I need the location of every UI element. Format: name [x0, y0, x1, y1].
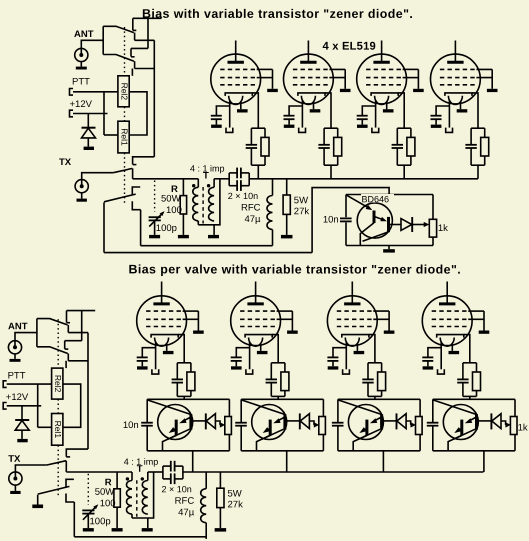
wire cap branch lower of RC1 [250, 148, 252, 165]
wire 5W 27k to ground [219, 508, 221, 528]
tube V3 grid g3 [366, 84, 403, 86]
wire darlington box ground stub [388, 246, 390, 250]
capacitor of RC6 [266, 378, 277, 380]
TX switch contact upper tick [133, 164, 137, 166]
wire RC3 output [403, 165, 405, 179]
tube V4 cathode [445, 93, 472, 96]
ground of V1 heater [237, 109, 248, 112]
zener box 4 box left edge with cap gap [432, 399, 434, 422]
tube V8 heater [440, 338, 454, 347]
transformer T secondary winding [147, 472, 149, 481]
svg-text:T: T [137, 464, 143, 475]
wire grid g1 to ground rail of V6 [277, 310, 293, 312]
diode protection [82, 127, 96, 129]
relay contact 2 tick [131, 56, 135, 58]
wire cathode of V8 to bias network [464, 335, 470, 363]
svg-text:RFC: RFC [175, 496, 195, 507]
wire contact 2 feed horizontal [65, 340, 82, 342]
wire cathode bypass of V3 [362, 106, 375, 116]
svg-text:1k: 1k [518, 423, 528, 434]
resistor of RC5 [187, 372, 195, 391]
tube V6 envelope [231, 296, 281, 346]
diode D1 [401, 219, 412, 231]
svg-text:T: T [203, 171, 209, 182]
zener box 3 box right edge with pot gap [419, 399, 421, 416]
transistor envelope of zener box 1 [158, 405, 193, 440]
wire PTT branch down [103, 92, 105, 135]
ground of 5W 27k [281, 235, 293, 239]
relay contact 1 upper terminal [132, 18, 134, 30]
transistor collector lead of zener box 2 [257, 429, 284, 451]
wire grid ground drop of V2 [344, 69, 346, 88]
wire zener box 2 to bus stub [286, 451, 288, 472]
ground of V2 bypass [284, 125, 295, 128]
ground of V5 grids [193, 331, 204, 334]
svg-text:10n: 10n [123, 420, 139, 431]
heater supply terminal of V3 [372, 128, 379, 133]
capacitor 10n in left edge [340, 217, 352, 219]
wire transformer ground stub [147, 518, 149, 528]
terminal +12V [70, 110, 74, 117]
svg-text:PTT: PTT [72, 77, 90, 88]
capacitor 100p variable link dotted [154, 181, 156, 212]
wire grid g2 to ground rail of V7 [373, 318, 389, 320]
transistor envelope of zener box 3 [348, 405, 383, 440]
tube V2 envelope [284, 54, 334, 104]
capacitor cathode bypass of V6 [231, 356, 242, 358]
potentiometer 1k of zener box 3 [416, 417, 423, 435]
heater supply terminal of V4 [446, 128, 453, 133]
tube V3 grid g1 [366, 68, 403, 70]
wire TX connector ground lead [14, 485, 16, 491]
wire cap branch of RC6 [270, 363, 272, 380]
transistor collector lead of zener box 1 [163, 429, 190, 451]
ground of V8 grids [479, 331, 490, 334]
transistor collector lead of zener box 4 [448, 429, 475, 451]
tube V7 grid g2 [337, 318, 374, 320]
svg-text:4 x EL519: 4 x EL519 [322, 41, 375, 53]
wire heater pin 2 of V3 [386, 102, 388, 110]
wire grid g2 to ground rail of V3 [403, 77, 419, 79]
ground of V4 heater [457, 109, 468, 112]
wire PTT to Rel2 [7, 383, 52, 385]
diode of zener box 1 [205, 413, 207, 429]
ground of V4 bypass [431, 125, 442, 128]
wire grid ground drop of V8 [483, 311, 485, 330]
wire RC4 output [477, 165, 479, 179]
transistor feed lead of zener box 4 [434, 400, 477, 414]
capacitor 2x10n branch rails [228, 173, 230, 186]
wire relay link to coil [65, 361, 67, 368]
relay coil Rel2 [118, 76, 129, 107]
relay contact 1 upper terminal [66, 311, 68, 323]
tube V5 plate lead wire [161, 282, 163, 304]
wire branch to Rel1 [104, 134, 118, 136]
tube V5 cathode [151, 335, 178, 338]
wire resistor branch of RC7 [381, 363, 383, 372]
zener box 1 box left edge with cap gap [146, 399, 148, 422]
ground of V8 bypass [423, 366, 434, 369]
relay contact arm 1 [37, 319, 68, 325]
svg-text:5W: 5W [227, 489, 241, 500]
diode of zener box 2 [299, 413, 301, 429]
wire output of zener box 1 [192, 420, 206, 422]
tube V7 grid g3 [337, 326, 374, 328]
wire TX arm to ground bottom [37, 495, 39, 505]
transformer T secondary phase dot [141, 477, 144, 480]
tube V4 grid g2 [440, 77, 477, 79]
wire resistor branch lower of RC1 [264, 156, 266, 165]
wire bus to 5W resistor [219, 472, 221, 488]
transistor bar B of zener box 2 [283, 414, 286, 429]
wire RFC down [205, 523, 207, 539]
ground of V2 grids [340, 89, 351, 92]
capacitor of RC3 [392, 144, 403, 146]
wire output of zener box 3 [382, 420, 396, 422]
TX switch middle contact [66, 479, 74, 487]
heater supply terminal of V8 [438, 369, 445, 374]
wire RC5 output [183, 396, 185, 399]
wire diode to pot of zener box 1 [215, 421, 220, 425]
resistor 5W 27k [283, 195, 290, 214]
wire bypass cap to ground of V5 [141, 361, 143, 366]
wire ANT connector ground lead [80, 62, 82, 67]
bias network RC6 bottom rail [271, 395, 285, 397]
capacitor 2x10n branch rails [162, 466, 164, 479]
ground of 100p [149, 235, 160, 238]
tube V3 plate lead wire [381, 41, 383, 63]
transformer T secondary winding [213, 179, 215, 188]
relay contact 2 tick [65, 348, 69, 350]
wire TX NO contact to bias rail A [140, 210, 142, 246]
wire heater pin 2 of V5 [166, 343, 168, 351]
wire TX feed vertical [87, 333, 89, 450]
wire contact feed horizontal [68, 332, 88, 334]
wire 100p to ground [87, 514, 89, 529]
tube V3 envelope [357, 54, 407, 104]
zener box 1 box right edge with pot gap [228, 399, 230, 416]
tube V8 plate lead wire [446, 282, 448, 304]
wire cap branch of RC2 [323, 128, 325, 145]
wire bypass cap to ground of V7 [332, 361, 334, 366]
wire grid g1 to ground rail of V7 [373, 310, 389, 312]
wire contact 2 to TX feed [135, 68, 155, 70]
wire cathode of V2 to bias network [325, 93, 331, 128]
tube V4 grid g3 [440, 84, 477, 86]
wire RF bus middle segment [214, 178, 229, 180]
darlington box left edge with cap gap [345, 195, 347, 218]
tube V1 envelope [211, 54, 261, 104]
wire resistor branch of RC6 [284, 363, 286, 372]
ground of V4 grids [487, 89, 498, 92]
wire cross link vertical [81, 311, 83, 341]
wire cathode of V4 to bias network [472, 93, 478, 128]
wire grid g1 to ground rail of V4 [476, 68, 492, 70]
transistor Q1 to Q2 link [375, 217, 384, 220]
wire +12V [7, 405, 42, 407]
wire RF bus bottom left segment [66, 471, 132, 473]
heater supply terminal of V5 [152, 369, 159, 374]
wire bypass cap to ground of V6 [235, 361, 237, 366]
wire cathode of V5 to bias network [178, 335, 184, 363]
tube V2 grid g2 [293, 77, 330, 79]
capacitor 10n of zener box 4 [427, 422, 439, 424]
wire resistor branch of RC3 [410, 128, 412, 137]
wire cathode of V3 to bias network [398, 93, 404, 128]
wire +12V to diode [21, 406, 23, 420]
bias network RC1 top rail [251, 127, 265, 129]
wire cathode bypass of V4 [436, 106, 449, 116]
bias network RC4 bottom rail [471, 164, 485, 166]
connector ANT [8, 341, 21, 354]
wire zener box 3 to bus stub [382, 451, 384, 472]
wire grid g1 to ground rail of V2 [329, 68, 345, 70]
wire heater pin 2 of V8 [451, 343, 453, 351]
wire cap branch lower of RC2 [323, 148, 325, 165]
transistor link of zener box 3 [373, 417, 381, 421]
relay contact 1 tick [133, 29, 137, 31]
wire cathode bypass of V5 [142, 348, 155, 358]
wire heater pin 1 of V2 [301, 100, 303, 128]
wire resistor branch of RC1 [264, 128, 266, 137]
wire RC1 output [257, 165, 259, 179]
tube V1 grid g2 [220, 77, 257, 79]
wire resistor branch of RC8 [476, 363, 478, 372]
potentiometer 1k of zener box 2 [319, 417, 326, 435]
wire heater pin 2 of V6 [260, 343, 262, 351]
ground of V1 grids [267, 89, 278, 92]
wire RC7 output [374, 396, 376, 399]
darlington box top edge [346, 194, 433, 196]
wire bypass cap to ground of V1 [215, 119, 217, 124]
tube V4 anode plate [447, 61, 463, 64]
wire cap branch of RC7 [367, 363, 369, 380]
relay contact 2 lower tail [67, 354, 69, 361]
zener box 3 box bottom edge [338, 450, 420, 452]
transistor feed lead of zener box 3 [339, 400, 382, 414]
capacitor cathode bypass of V7 [327, 356, 338, 358]
TX switch middle contact [132, 187, 140, 195]
transistor collector lead of zener box 3 [353, 429, 380, 451]
zener box 4 box top edge [433, 398, 515, 400]
resistor of RC2 [334, 137, 342, 156]
wire grid g2 to ground rail of V1 [257, 77, 273, 79]
wire Q2 output [389, 224, 401, 226]
tube V7 cathode [342, 335, 369, 338]
transistor bar A lower lead of zener box 2 [262, 435, 271, 439]
ground of 5W 27k [215, 528, 227, 532]
wire cathode bypass of V6 [236, 348, 249, 358]
transistor feed lead of zener box 1 [148, 400, 191, 414]
wire heater pin 1 of V1 [229, 100, 231, 128]
svg-text:100p: 100p [89, 516, 110, 527]
wire heater pin 1 of V3 [375, 100, 377, 128]
wire PTT branch down [37, 384, 39, 427]
tube V8 grid g2 [432, 318, 469, 320]
bias network RC1 bottom rail [251, 164, 265, 166]
tube V8 grid g1 [432, 310, 469, 312]
ground of V1 bypass [211, 125, 222, 128]
tube V1 plate lead wire [235, 41, 237, 63]
tube V1 cathode [225, 93, 252, 96]
svg-text:47µ: 47µ [244, 214, 261, 225]
tube V6 plate lead wire [255, 282, 257, 304]
svg-text:Rel1: Rel1 [119, 128, 129, 146]
ground of V6 bypass [231, 366, 242, 369]
svg-text:TX: TX [59, 157, 72, 168]
terminal PTT [70, 89, 74, 96]
svg-text:2 × 10n: 2 × 10n [161, 484, 191, 494]
tube V7 grid g1 [337, 310, 374, 312]
wire cap branch lower of RC5 [176, 383, 178, 397]
wire Rel2 to Rel1 right link [129, 92, 147, 135]
relay contact arm 2 [37, 347, 68, 354]
wire contact 2 upper terminal [130, 48, 132, 56]
svg-text:1k: 1k [438, 223, 448, 234]
tube V4 grid g1 [440, 68, 477, 70]
TX switch contact upper [133, 157, 155, 165]
transistor Q2 base bar [387, 217, 390, 232]
relay actuator dotted link middle [124, 107, 126, 121]
wire resistor branch lower of RC4 [484, 156, 486, 165]
resistor of RC6 [281, 372, 289, 391]
zener box 2 box bottom edge [241, 450, 323, 452]
svg-text:PTT: PTT [8, 371, 26, 382]
wire cap branch lower of RC3 [396, 148, 398, 165]
wire contact 2 to TX feed [68, 360, 88, 362]
resistor of RC8 [473, 372, 481, 391]
tube V8 anode plate [439, 302, 455, 305]
ground of R [112, 528, 123, 531]
relay contact arm 2 [103, 55, 134, 62]
ground of V6 grids [287, 331, 298, 334]
tube V5 envelope [137, 296, 187, 346]
wire grid ground drop of V5 [197, 311, 199, 330]
wire heater pin 1 of V8 [440, 342, 442, 370]
resistor R 50W 100 [114, 489, 120, 507]
wire heater pin 1 of V5 [155, 342, 157, 370]
wire RF bus left segment [133, 178, 199, 180]
zener box 2 box left edge with cap gap [240, 399, 242, 422]
wire ANT to relay common [81, 40, 103, 55]
wire zener box 4 to bus stub [483, 451, 485, 472]
svg-text:Bias with variable transistor: Bias with variable transistor "zener dio… [142, 7, 413, 21]
tube V2 plate lead wire [307, 41, 309, 63]
diode protection [15, 419, 29, 421]
ground of V6 heater [257, 351, 268, 354]
wire output of zener box 4 [477, 420, 491, 422]
tube V5 grid g1 [146, 310, 183, 312]
wire cap branch of RC8 [462, 363, 464, 380]
svg-text:ANT: ANT [8, 321, 28, 332]
transistor BD646 envelope [357, 203, 392, 238]
zener box 1 box top edge [147, 398, 229, 400]
transistor bar A lower lead of zener box 1 [168, 435, 177, 439]
transformer T core [202, 187, 204, 224]
transistor link of zener box 1 [183, 417, 191, 421]
label BD646 [361, 194, 394, 203]
transistor bar A lower lead of zener box 3 [358, 435, 367, 439]
wire resistor branch of RC2 [337, 128, 339, 137]
wire heater pin 2 of V7 [356, 343, 358, 351]
wire bias rail A bottom [74, 536, 206, 538]
transistor bar A of zener box 2 [269, 420, 272, 436]
transformer T core [136, 480, 138, 517]
wire heater pin 2 of V2 [313, 102, 315, 110]
transistor envelope of zener box 2 [252, 405, 287, 440]
wire bypass cap to ground of V2 [288, 119, 290, 124]
transistor emitter arrow of zener box 1 [174, 428, 176, 429]
wire diode to ground [21, 430, 23, 439]
tube V2 cathode [298, 93, 325, 96]
wire resistor branch of RC5 [190, 363, 192, 372]
relay coil Rel1 [52, 414, 63, 446]
capacitor 10n b [229, 185, 237, 187]
bias network RC3 top rail [397, 127, 411, 129]
wire heater pin 1 of V7 [345, 342, 347, 370]
diode of zener box 4 [490, 413, 492, 429]
wire bus to RFC [272, 179, 274, 196]
wire RC6 output [277, 396, 279, 399]
capacitor of RC4 [465, 144, 476, 146]
wire +12V to diode [87, 114, 89, 128]
wire branch to Rel1 [38, 426, 52, 428]
wire grid ground drop of V4 [491, 69, 493, 88]
wire contact 1 stub [133, 17, 162, 19]
TX switch contact lower [66, 494, 74, 503]
svg-text:5W: 5W [294, 195, 308, 206]
tube V7 envelope [327, 296, 377, 346]
relay actuator dotted link upper [57, 319, 59, 368]
tube V2 anode plate [300, 61, 316, 64]
zener box 3 box top edge [338, 398, 420, 400]
wire 5W 27k to ground [286, 214, 288, 235]
ground of V7 heater [354, 351, 365, 354]
capacitor cathode bypass of V8 [422, 356, 433, 358]
zener box 4 box bottom edge [433, 450, 515, 452]
ground of transformer [142, 528, 153, 531]
ground of diode [17, 439, 27, 442]
tube V3 heater [375, 96, 389, 105]
resistor 5W 27k [217, 488, 224, 507]
transistor bar B of zener box 1 [189, 414, 192, 429]
wire RFC down [272, 230, 274, 246]
wire RC8 output [469, 396, 471, 399]
wire grid ground drop of V7 [388, 311, 390, 330]
ground of R [178, 235, 189, 238]
wire diode to pot of zener box 4 [501, 421, 506, 425]
wire cap branch of RC1 [250, 128, 252, 145]
svg-text:2 × 10n: 2 × 10n [228, 191, 258, 201]
transistor bar A of zener box 3 [365, 420, 368, 436]
capacitor 10n of zener box 2 [235, 422, 247, 424]
wire diode to pot of zener box 2 [309, 421, 314, 425]
wire RF bus bottom right segment [183, 471, 484, 473]
wire cross link vertical [147, 18, 149, 48]
transistor envelope of zener box 4 [443, 405, 478, 440]
resistor of RC7 [378, 372, 386, 391]
wire resistor branch lower of RC7 [381, 391, 383, 397]
ground of 100p [83, 528, 94, 531]
wire bias rail to darlington box [312, 188, 389, 253]
relay contact 1 lower tail [67, 325, 69, 333]
transistor bar B of zener box 4 [475, 414, 478, 429]
wire heater pin 2 of V1 [240, 102, 242, 110]
svg-text:Bias per valve with variable t: Bias per valve with variable transistor … [128, 262, 461, 276]
transistor emitter arrow of zener box 2 [268, 428, 270, 429]
wire transformer bottom bracket [132, 472, 154, 518]
tube V4 heater [448, 96, 462, 105]
